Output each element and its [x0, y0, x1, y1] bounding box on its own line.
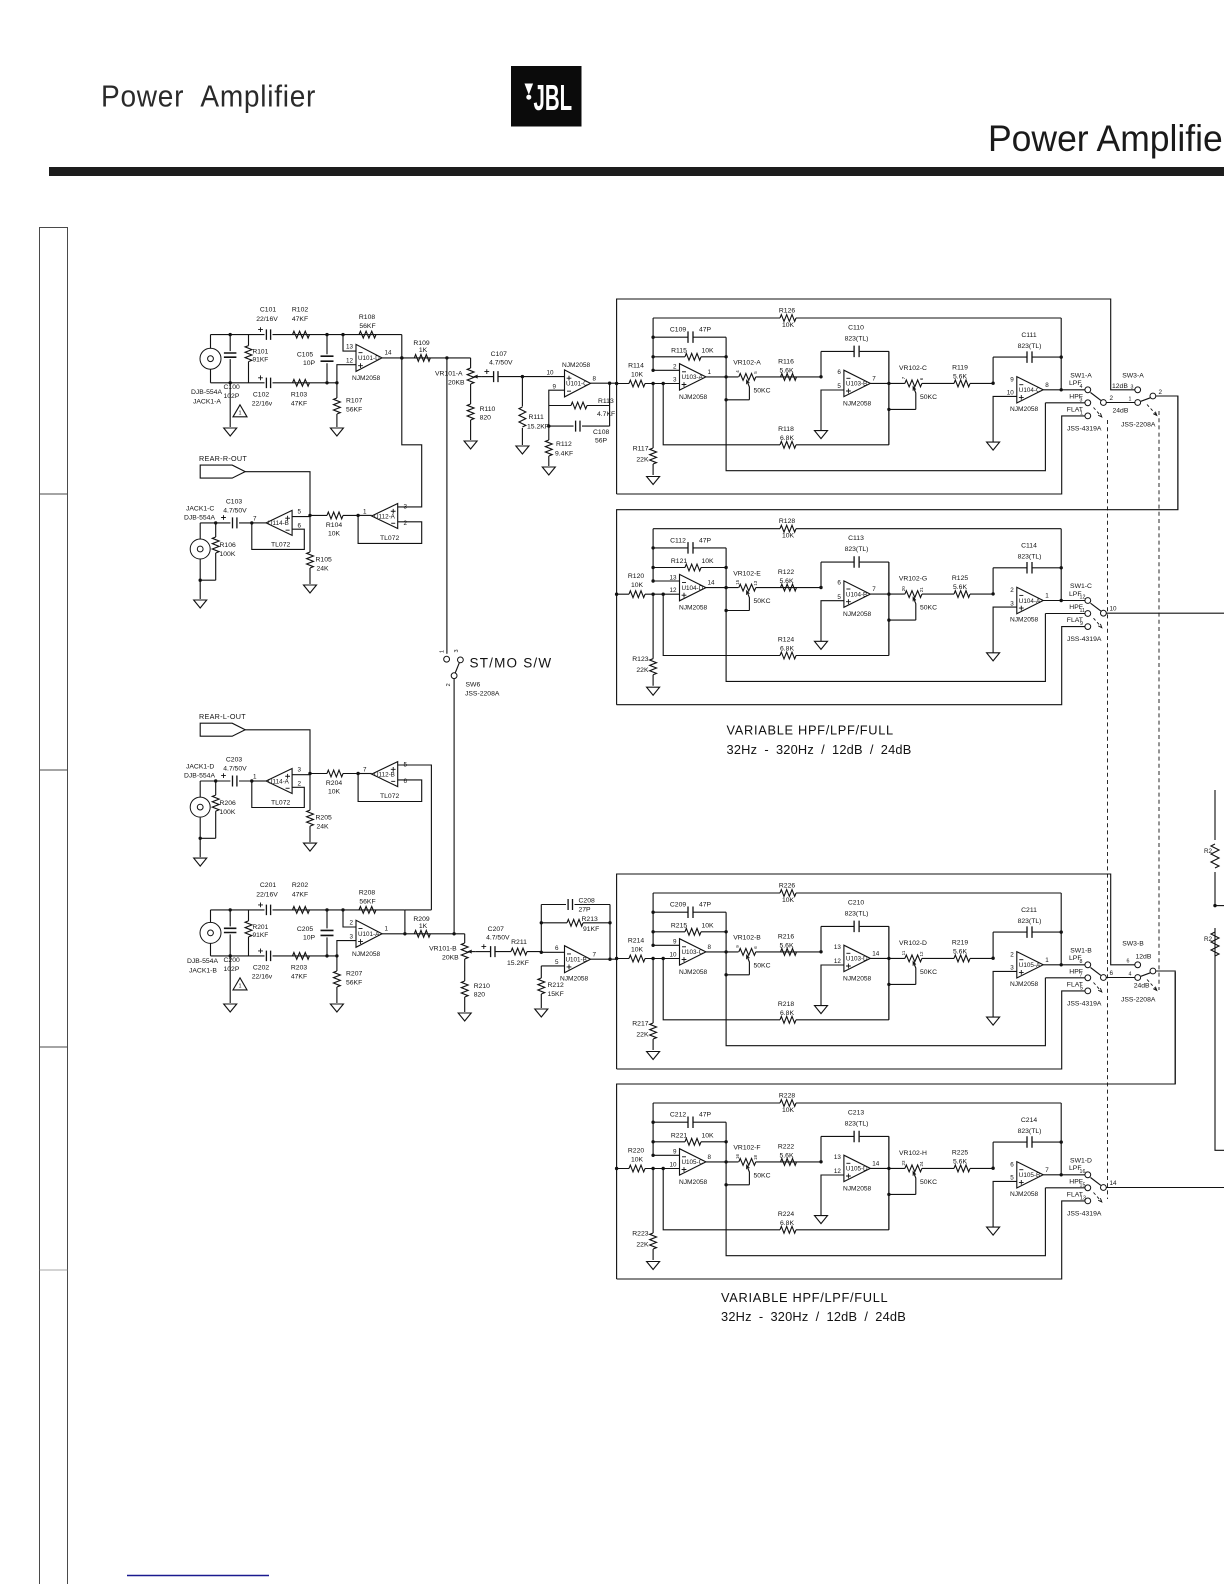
svg-text:12: 12	[346, 358, 354, 365]
svg-text:5.6K: 5.6K	[953, 948, 967, 955]
ground (jack)	[194, 858, 207, 866]
svg-text:2: 2	[446, 683, 452, 686]
resistor R104 10K	[310, 514, 358, 516]
JBL logo	[511, 66, 582, 127]
svg-text:VR102-A: VR102-A	[733, 360, 761, 367]
resistor R111 15.2KF	[521, 377, 523, 445]
svg-text:1: 1	[363, 508, 367, 515]
resistor R106 100K	[200, 523, 216, 599]
svg-text:JSS-2208A: JSS-2208A	[1121, 422, 1156, 429]
svg-text:10K: 10K	[701, 347, 714, 354]
resistor R125 5.6K	[954, 591, 970, 598]
resistor R123 22K	[652, 594, 654, 686]
svg-text:47P: 47P	[699, 537, 712, 544]
flag REAR-L-OUT	[200, 723, 245, 736]
svg-text:R203: R203	[291, 964, 307, 971]
resistor R105 24K	[309, 515, 311, 584]
svg-text:20: 20	[901, 586, 906, 592]
svg-text:9: 9	[673, 939, 677, 946]
resistor R206 100K	[200, 781, 216, 857]
wire: mixer feedback loop	[358, 515, 422, 543]
svg-text:23: 23	[901, 1160, 906, 1166]
svg-text:9.4KF: 9.4KF	[555, 451, 573, 458]
ground (R111)	[516, 446, 529, 454]
svg-text:3: 3	[298, 767, 302, 774]
wire: buffer + input	[292, 774, 310, 776]
svg-text:15: 15	[735, 579, 740, 585]
svg-text:5.6K: 5.6K	[953, 1158, 967, 1165]
svg-text:C107: C107	[491, 351, 507, 358]
resistor R116 5.6K	[781, 374, 797, 381]
wire: U101-C output to filter block 1	[591, 382, 617, 384]
svg-text:REAR-R-OUT: REAR-R-OUT	[199, 454, 247, 463]
svg-text:SW1-C: SW1-C	[1070, 583, 1092, 590]
svg-text:U114-B: U114-B	[268, 520, 289, 527]
resistor R109 1K	[414, 355, 430, 362]
svg-text:2: 2	[673, 364, 677, 371]
svg-text:C208: C208	[579, 898, 595, 905]
op-amp U104-B NJM2058	[844, 581, 870, 607]
resistor R107 56KF	[336, 383, 338, 427]
svg-text:U103-C: U103-C	[682, 949, 704, 956]
svg-text:U105-A: U105-A	[1019, 962, 1041, 969]
svg-text:TL072: TL072	[380, 793, 399, 800]
svg-text:15KF: 15KF	[548, 991, 564, 998]
op-amp U105-A NJM2058	[1017, 952, 1043, 978]
svg-text:6: 6	[298, 523, 302, 530]
capacitor C205 10P	[326, 910, 328, 956]
svg-text:4.7/50V: 4.7/50V	[223, 766, 247, 773]
svg-text:24K: 24K	[317, 566, 330, 573]
svg-text:2: 2	[1010, 587, 1014, 594]
resistor R102 47KF	[293, 331, 310, 338]
svg-text:R201: R201	[253, 924, 269, 931]
switch motion arrow SW3-A	[1147, 405, 1157, 416]
svg-text:10K: 10K	[631, 1157, 644, 1164]
svg-text:R115: R115	[671, 347, 687, 354]
svg-text:NJM2058: NJM2058	[352, 951, 381, 958]
svg-text:C109: C109	[670, 327, 686, 334]
svg-text:R209: R209	[413, 916, 429, 923]
capacitor C108 56P	[549, 383, 610, 426]
input jack JACK1-B	[200, 922, 221, 943]
svg-text:U101-C: U101-C	[566, 381, 588, 388]
svg-text:VR101-A: VR101-A	[435, 371, 463, 378]
node: channel A input chain	[191, 307, 513, 449]
resistor R224 6.8K rail	[663, 1136, 889, 1229]
wire: page-edge resistor chain	[1215, 790, 1224, 1150]
warning triangle	[233, 978, 247, 990]
dashed gang link SW1	[1107, 420, 1109, 1199]
wire: op-amp output	[382, 934, 465, 941]
op-amp U105-B NJM2058	[1017, 1162, 1043, 1188]
switch SW6 lever	[455, 663, 459, 673]
resistor R103 47KF	[293, 379, 310, 386]
svg-text:22K: 22K	[636, 1032, 649, 1039]
wire: stage 2 + input to ground	[821, 390, 844, 431]
wire: C107 to U101-C input	[498, 376, 565, 378]
ground (R112)	[542, 467, 555, 475]
resistor R217 22K	[652, 959, 654, 1051]
svg-text:823(TL): 823(TL)	[845, 546, 869, 553]
svg-text:1: 1	[238, 983, 241, 989]
resistor R210 820	[464, 966, 466, 1012]
svg-text:U101-A: U101-A	[358, 931, 380, 938]
svg-text:R217: R217	[632, 1021, 648, 1028]
svg-text:5: 5	[1080, 985, 1083, 991]
svg-text:R2: R2	[1204, 936, 1213, 943]
svg-text:102P: 102P	[224, 393, 240, 400]
capacitor C114 823(TL)	[993, 568, 1061, 594]
svg-text:12: 12	[669, 587, 677, 594]
svg-text:SW3-A: SW3-A	[1122, 372, 1144, 379]
svg-text:ST/MO S/W: ST/MO S/W	[470, 656, 553, 671]
svg-text:VR101-B: VR101-B	[429, 946, 457, 953]
svg-text:5.6K: 5.6K	[953, 584, 967, 591]
wire: mixer output node	[358, 773, 372, 775]
op-amp U104-C NJM2058	[1017, 377, 1043, 403]
svg-text:R212: R212	[548, 982, 564, 989]
svg-text:6.8K: 6.8K	[780, 1220, 794, 1227]
ground (op-amp input)	[330, 1004, 343, 1012]
svg-text:32Hz - 320Hz / 12dB / 24: 32Hz - 320Hz / 12dB / 24dB	[727, 742, 912, 757]
wire: jack stem	[199, 781, 201, 797]
wire: HPF return column	[726, 912, 1045, 1045]
switch SW3-A JSS-2208A	[1135, 387, 1141, 393]
wire: flag to mix node	[245, 730, 310, 774]
svg-text:R2: R2	[1204, 848, 1213, 855]
svg-text:12dB: 12dB	[1136, 954, 1152, 961]
node: filter block 4 (channel B 24dB section)	[615, 972, 1224, 1279]
switch SW1-C JSS-4319A	[1085, 598, 1091, 604]
resistor R229 (clipped)	[1211, 844, 1219, 868]
svg-text:VARIABLE HPF/LPF/FULL: VARIABLE HPF/LPF/FULL	[727, 723, 894, 738]
wire: stage 2 output	[870, 1167, 905, 1169]
resistor R226 10K feedback rail	[653, 892, 1061, 894]
op-amp U103-C NJM2058	[680, 939, 706, 965]
op-amp U112-A TL072	[372, 504, 398, 529]
svg-text:5.6K: 5.6K	[780, 1153, 794, 1160]
svg-text:U103-D: U103-D	[846, 956, 868, 963]
wire: pin bottom to bottom rail	[337, 365, 356, 383]
svg-text:12dB: 12dB	[1112, 383, 1128, 390]
switch SW1-B JSS-4319A	[1085, 962, 1091, 968]
svg-text:9: 9	[552, 383, 556, 390]
svg-text:50KC: 50KC	[920, 1179, 937, 1186]
capacitor C209 47P	[653, 911, 726, 913]
svg-text:10K: 10K	[782, 1107, 795, 1114]
svg-text:C110: C110	[848, 325, 864, 332]
svg-text:R223: R223	[632, 1231, 648, 1238]
svg-text:R109: R109	[413, 340, 429, 347]
svg-text:NJM2058: NJM2058	[352, 375, 381, 382]
ground (pot)	[464, 441, 477, 449]
svg-text:823(TL): 823(TL)	[1018, 1128, 1042, 1135]
svg-text:U101-B: U101-B	[566, 957, 587, 964]
wire: pin top to rail	[343, 335, 356, 352]
wire: inverting input column	[653, 318, 679, 370]
svg-text:8: 8	[708, 944, 712, 951]
svg-text:NJM2058: NJM2058	[679, 605, 708, 612]
svg-text:TL072: TL072	[380, 535, 399, 542]
svg-text:SW1-A: SW1-A	[1070, 372, 1092, 379]
svg-text:TL072: TL072	[271, 542, 290, 549]
switch motion arrow SW3-B	[1147, 980, 1157, 991]
wire: inverting input column	[653, 1103, 679, 1155]
svg-text:JACK1-B: JACK1-B	[189, 968, 217, 975]
node: filter block 1 (channel A HPF/LPF)	[615, 299, 1178, 510]
resistor R120 10K input	[617, 593, 680, 595]
svg-text:823(TL): 823(TL)	[845, 911, 869, 918]
switch SW1-A JSS-4319A	[1085, 387, 1091, 393]
svg-text:10K: 10K	[328, 789, 341, 796]
svg-text:R207: R207	[346, 971, 362, 978]
svg-text:C105: C105	[297, 352, 313, 359]
svg-text:VR102-G: VR102-G	[899, 576, 927, 583]
wire: SW3-B common out	[1156, 971, 1175, 1084]
svg-text:TL072: TL072	[271, 800, 290, 807]
op-amp U104-A NJM2058	[1017, 587, 1043, 613]
wire: pin top to rail	[343, 910, 356, 927]
wire: U101-B output to filter block 3	[591, 958, 617, 960]
capacitor C212 47P	[653, 1121, 726, 1123]
svg-text:VR102-D: VR102-D	[899, 940, 927, 947]
ground (input jack)	[224, 1004, 237, 1012]
svg-text:13: 13	[834, 944, 842, 951]
svg-text:1: 1	[1045, 957, 1049, 964]
resistor R222 5.6K	[781, 1159, 797, 1166]
capacitor C214 823(TL)	[993, 1142, 1061, 1168]
resistor R228 10K feedback rail	[653, 1102, 1061, 1104]
svg-text:VR102-H: VR102-H	[899, 1150, 927, 1157]
svg-text:6: 6	[404, 778, 408, 785]
svg-text:R122: R122	[778, 569, 794, 576]
svg-text:C114: C114	[1021, 543, 1037, 550]
svg-text:SW6: SW6	[466, 682, 481, 689]
svg-text:R117: R117	[633, 446, 649, 453]
resistor R211 15.2KF	[495, 951, 541, 953]
svg-text:91KF: 91KF	[253, 932, 269, 939]
svg-text:1: 1	[253, 774, 257, 781]
svg-text:16: 16	[735, 1154, 740, 1160]
ground (stage 3)	[987, 442, 1000, 450]
svg-text:4: 4	[1129, 971, 1132, 977]
resistor R203 47KF	[293, 953, 310, 960]
potentiometer VR101-A 20KB	[470, 366, 472, 368]
svg-text:C210: C210	[848, 900, 864, 907]
svg-text:NJM2058: NJM2058	[562, 362, 591, 369]
svg-text:14: 14	[872, 1161, 880, 1168]
resistor R215 10K	[653, 931, 726, 933]
svg-text:10K: 10K	[631, 947, 644, 954]
capacitor C113 823(TL)	[821, 562, 889, 655]
wire: buffer output	[252, 522, 266, 524]
wire: buffer feedback loop	[252, 523, 304, 550]
svg-text:11: 11	[901, 950, 906, 955]
ground (op-amp input)	[330, 428, 343, 436]
svg-text:21: 21	[919, 587, 924, 593]
wire: SW1 common	[1106, 402, 1135, 404]
resistor R212 15KF	[541, 966, 564, 1008]
wire: block bottom edge to FLAT	[617, 991, 1085, 1069]
svg-text:1: 1	[440, 650, 446, 653]
svg-text:C213: C213	[848, 1110, 864, 1117]
svg-text:15.2KF: 15.2KF	[527, 424, 549, 431]
wire: jack stem	[199, 523, 201, 539]
svg-text:U105-B: U105-B	[1019, 1172, 1040, 1179]
wire: stage 1 output	[706, 1161, 739, 1163]
svg-text:R206: R206	[220, 800, 236, 807]
svg-text:6.8K: 6.8K	[780, 646, 794, 653]
svg-text:9: 9	[673, 1149, 677, 1156]
svg-text:Power Amplifier: Power Amplifier	[988, 117, 1224, 159]
svg-text:3: 3	[1131, 384, 1134, 390]
svg-text:6: 6	[1127, 959, 1130, 965]
svg-text:R116: R116	[778, 358, 794, 365]
resistor R207 56KF	[336, 956, 338, 1003]
svg-text:56KF: 56KF	[346, 980, 362, 987]
capacitor C213 823(TL)	[821, 1136, 889, 1229]
svg-text:R215: R215	[671, 922, 687, 929]
switch SW3-B JSS-2208A	[1135, 962, 1141, 968]
svg-text:NJM2058: NJM2058	[1010, 1191, 1039, 1198]
svg-text:R110: R110	[480, 406, 496, 413]
svg-text:R218: R218	[778, 1001, 794, 1008]
svg-text:7: 7	[593, 952, 597, 959]
svg-text:JSS-4319A: JSS-4319A	[1067, 1211, 1102, 1218]
capacitor C103 4.7/50V	[200, 522, 252, 524]
svg-text:47KF: 47KF	[292, 891, 308, 898]
svg-text:R219: R219	[952, 939, 968, 946]
svg-text:NJM2058: NJM2058	[843, 976, 872, 983]
capacitor C101 22/16V	[266, 329, 270, 340]
resistor R118 6.8K rail	[663, 351, 889, 444]
svg-text:47P: 47P	[699, 1112, 712, 1119]
wire: HPF return column	[726, 1122, 1045, 1256]
svg-text:820: 820	[480, 415, 492, 422]
svg-text:18: 18	[753, 1155, 758, 1161]
svg-text:14: 14	[708, 580, 716, 587]
svg-text:NJM2058: NJM2058	[843, 611, 872, 618]
svg-text:1: 1	[238, 410, 241, 416]
svg-text:NJM2058: NJM2058	[843, 1186, 872, 1193]
svg-text:3: 3	[454, 649, 460, 652]
resistor R208 56KF	[359, 907, 376, 914]
capacitor C207 4.7/50V	[491, 946, 495, 957]
svg-text:R224: R224	[778, 1211, 794, 1218]
wire: stage 3 + input to ground	[993, 396, 1017, 442]
svg-text:14: 14	[385, 350, 393, 357]
svg-text:3: 3	[1010, 600, 1014, 607]
ground (stage 2)	[815, 1216, 828, 1224]
svg-text:20KB: 20KB	[448, 380, 465, 387]
svg-text:R208: R208	[359, 889, 375, 896]
op-amp U114-B TL072	[266, 510, 292, 535]
svg-text:U105-C: U105-C	[682, 1159, 704, 1166]
wire: stage 1 output	[706, 376, 739, 378]
resistor R126 10K feedback rail	[653, 317, 1061, 319]
svg-text:DJB-554A: DJB-554A	[184, 773, 215, 780]
resistor R230 (clipped)	[1211, 932, 1219, 956]
op-amp U101-A NJM2058	[356, 920, 382, 947]
svg-text:1K: 1K	[419, 347, 428, 354]
resistor R205 24K	[309, 774, 311, 843]
resistor R124 6.8K rail	[663, 562, 889, 655]
ground (pot)	[458, 1013, 471, 1021]
svg-text:2: 2	[349, 919, 353, 926]
wire: SW1 common	[1106, 977, 1135, 979]
svg-text:R228: R228	[779, 1093, 795, 1100]
svg-text:4: 4	[1080, 384, 1083, 390]
wire: mixer output node	[358, 514, 372, 516]
svg-text:C111: C111	[1021, 332, 1036, 339]
potentiometer VR102-C 50KC	[905, 380, 922, 387]
svg-text:U104-C: U104-C	[1019, 387, 1041, 394]
flag REAR-R-OUT	[200, 465, 245, 478]
sidebar divider 2	[40, 769, 68, 771]
svg-text:47P: 47P	[699, 902, 712, 909]
svg-text:100K: 100K	[220, 809, 236, 816]
resistor R216 5.6K	[781, 949, 797, 956]
svg-text:R102: R102	[292, 307, 308, 314]
svg-text:8: 8	[708, 1154, 712, 1161]
svg-text:13: 13	[753, 580, 758, 586]
ground (R212)	[535, 1009, 548, 1017]
svg-text:R211: R211	[511, 939, 527, 946]
svg-text:JACK1-A: JACK1-A	[193, 399, 221, 406]
resistor R122 5.6K	[781, 584, 797, 591]
op-amp U101-D NJM2058	[356, 344, 382, 371]
capacitor C110 823(TL)	[821, 351, 889, 444]
svg-text:14: 14	[872, 951, 880, 958]
wire: HPF contact	[1045, 402, 1085, 404]
svg-text:R216: R216	[778, 933, 794, 940]
resistor R219 5.6K	[954, 955, 970, 962]
ground (stage 2)	[815, 641, 828, 649]
wire: block loop left/top/bottom	[617, 396, 1178, 705]
switch motion arrow SW1-C	[1094, 618, 1102, 627]
svg-text:5.6K: 5.6K	[953, 373, 967, 380]
wire: mixer feedback loop	[358, 774, 422, 802]
resistor R108 56KF	[359, 331, 376, 338]
svg-text:10: 10	[669, 1161, 677, 1168]
potentiometer VR102-A 50KC	[739, 374, 756, 381]
wire: pin bottom to bottom rail	[337, 941, 356, 956]
svg-text:10K: 10K	[328, 530, 341, 537]
input jack JACK1-A	[200, 348, 221, 369]
resistor R214 10K input	[617, 958, 680, 960]
svg-text:C100: C100	[224, 384, 240, 391]
svg-text:91KF: 91KF	[253, 357, 269, 364]
svg-text:JSS-2208A: JSS-2208A	[465, 691, 500, 698]
svg-text:SW1-D: SW1-D	[1070, 1157, 1092, 1164]
svg-text:9: 9	[1010, 377, 1014, 384]
svg-text:R222: R222	[778, 1143, 794, 1150]
wire: block loop left/top/bottom	[617, 299, 1135, 494]
wire: inverting input column	[653, 893, 679, 945]
svg-text:100K: 100K	[220, 551, 236, 558]
svg-text:823(TL): 823(TL)	[1018, 554, 1042, 561]
svg-text:2: 2	[1110, 395, 1114, 402]
svg-text:R120: R120	[628, 573, 644, 580]
svg-text:823(TL): 823(TL)	[845, 336, 869, 343]
svg-text:VR102-B: VR102-B	[733, 935, 761, 942]
ground (input)	[647, 1052, 660, 1060]
svg-text:R128: R128	[779, 518, 795, 525]
svg-text:10K: 10K	[701, 1132, 714, 1139]
svg-text:R225: R225	[952, 1149, 968, 1156]
capacitor C202 22/16v	[266, 951, 270, 962]
